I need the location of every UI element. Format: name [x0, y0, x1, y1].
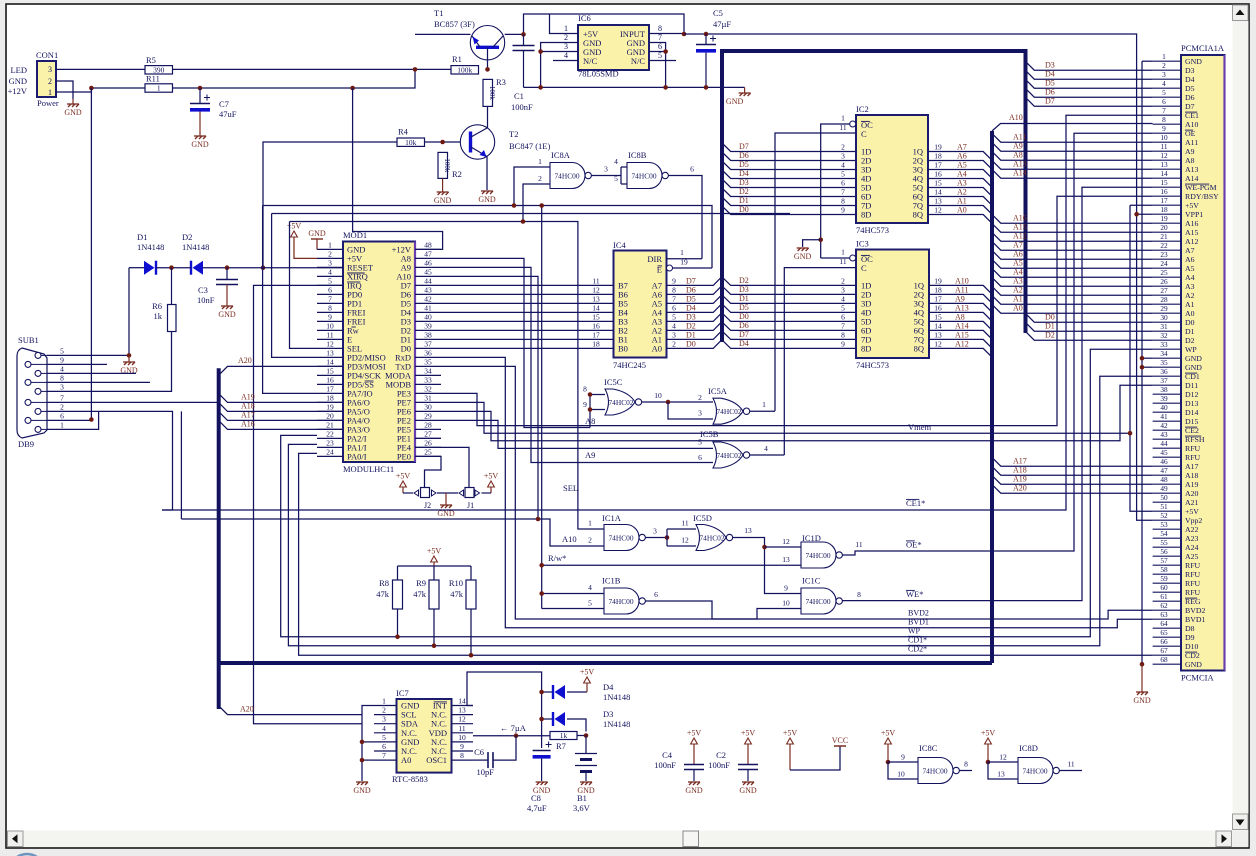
svg-text:11: 11: [326, 330, 333, 339]
svg-text:A4: A4: [1013, 268, 1023, 277]
svg-text:A20: A20: [1013, 484, 1027, 493]
svg-text:C3: C3: [198, 285, 208, 295]
pin MOD1 6 PD0: [317, 293, 343, 295]
pin MOD1 5 IRQ: [317, 284, 343, 286]
svg-text:A0: A0: [1185, 309, 1195, 318]
svg-text:2: 2: [382, 706, 386, 715]
svg-text:A24: A24: [1185, 543, 1199, 552]
horizontal scrollbar thumb: [683, 831, 699, 847]
svg-text:D6: D6: [739, 321, 749, 330]
svg-text:6: 6: [698, 453, 702, 462]
svg-text:8: 8: [328, 303, 332, 312]
pin MOD1 4 XIRQ: [317, 275, 343, 277]
svg-text:A8: A8: [1185, 156, 1195, 165]
svg-text:74HC02: 74HC02: [716, 407, 741, 416]
svg-text:48: 48: [424, 240, 432, 249]
svg-text:CD1*: CD1*: [908, 636, 927, 645]
svg-text:6: 6: [60, 411, 64, 420]
svg-text:26: 26: [1160, 277, 1168, 286]
svg-text:9: 9: [328, 312, 332, 321]
svg-text:37: 37: [1160, 376, 1168, 385]
svg-text:4: 4: [1162, 79, 1166, 88]
svg-text:D5: D5: [739, 303, 749, 312]
svg-text:17: 17: [934, 294, 942, 303]
svg-text:12: 12: [592, 285, 600, 294]
pin PCMCIA 66 D10: [1153, 645, 1181, 647]
svg-text:A2: A2: [1185, 291, 1195, 300]
svg-text:3,6V: 3,6V: [573, 803, 591, 813]
pin IC4 E: [667, 265, 673, 271]
svg-text:36: 36: [1160, 367, 1168, 376]
svg-text:1: 1: [382, 697, 386, 706]
wire IC7 VDD line: [473, 735, 550, 737]
svg-text:PA0/I: PA0/I: [347, 452, 367, 462]
svg-text:12: 12: [934, 206, 942, 215]
pin PCMCIA 56 A25: [1153, 555, 1181, 557]
wire T2 emitter to GND: [486, 157, 488, 191]
svg-text:63: 63: [1160, 610, 1168, 619]
pin PCMCIA 19 A16: [1153, 222, 1181, 224]
pin MOD1 9 FREI: [317, 320, 343, 322]
svg-text:D5: D5: [686, 294, 696, 303]
svg-text:24: 24: [326, 447, 334, 456]
pin PCMCIA 51 +5V: [1153, 510, 1181, 512]
pin PCMCIA 43 RFSH: [1153, 438, 1181, 440]
svg-text:A0: A0: [957, 206, 967, 215]
pin MOD1 7 PD1: [317, 302, 343, 304]
svg-text:74HC00: 74HC00: [805, 551, 830, 560]
svg-text:IC3: IC3: [856, 239, 869, 249]
bottom strip logo arc: [9, 854, 45, 856]
svg-text:MODULHC11: MODULHC11: [343, 464, 394, 474]
svg-text:54: 54: [1160, 529, 1168, 538]
svg-text:13: 13: [458, 706, 466, 715]
svg-text:C: C: [861, 129, 867, 139]
svg-text:6: 6: [382, 742, 386, 751]
svg-text:R1: R1: [452, 54, 462, 64]
pin PCMCIA 3 D4: [1153, 78, 1181, 80]
svg-text:T1: T1: [434, 8, 443, 18]
wire TxD line BVD1: [441, 366, 1153, 619]
svg-text:38: 38: [424, 330, 432, 339]
svg-text:16: 16: [592, 321, 600, 330]
wire RESET line: [129, 267, 144, 269]
svg-text:D15: D15: [1185, 417, 1199, 426]
svg-text:11: 11: [855, 540, 862, 549]
svg-text:IC7: IC7: [396, 688, 409, 698]
svg-text:5: 5: [841, 303, 845, 312]
svg-text:7: 7: [658, 33, 662, 42]
wire +12V line to VPP: [684, 34, 1153, 520]
pin MOD1 33 MODB: [415, 383, 441, 385]
wire IC4 outputs to bus: [667, 277, 723, 286]
svg-text:D6: D6: [739, 151, 749, 160]
pin MOD1 43 D6: [415, 293, 441, 295]
wire PE6 line: [441, 385, 1153, 441]
svg-text:44: 44: [424, 276, 432, 285]
pin PCMCIA 59 RFU: [1153, 582, 1181, 584]
pin PCMCIA 21 A12: [1153, 240, 1181, 242]
svg-text:55: 55: [1160, 538, 1168, 547]
svg-text:49: 49: [1160, 484, 1168, 493]
svg-text:3: 3: [653, 527, 657, 536]
battery B1: [585, 736, 587, 754]
pin PCMCIA 14 A14: [1153, 177, 1181, 179]
svg-text:A17: A17: [1185, 462, 1199, 471]
svg-text:4,7uF: 4,7uF: [527, 803, 547, 813]
svg-text:A10: A10: [1009, 113, 1023, 122]
svg-text:RFU: RFU: [1185, 588, 1201, 597]
wire OE* line: [842, 133, 1152, 555]
svg-text:GND: GND: [794, 252, 812, 261]
pin PCMCIA 22 A7: [1153, 249, 1181, 251]
svg-text:GND: GND: [1185, 660, 1202, 669]
svg-text:D6: D6: [686, 285, 696, 294]
pin PCMCIA 46 A17: [1153, 465, 1181, 467]
svg-text:A5: A5: [1185, 264, 1195, 273]
diode D3 1N4148: [542, 718, 553, 720]
svg-text:D4: D4: [1185, 75, 1195, 84]
svg-text:T2: T2: [509, 129, 518, 139]
svg-text:IC1A: IC1A: [602, 513, 622, 523]
svg-text:A9: A9: [585, 450, 595, 460]
junction OC gnd: [818, 238, 823, 243]
pin IC7 11 VDD: [452, 732, 474, 734]
svg-text:16: 16: [934, 303, 942, 312]
pin MOD1 12 SEL: [317, 347, 343, 349]
wire Rw net line to PA7: [263, 206, 712, 269]
svg-text:7: 7: [382, 751, 386, 760]
svg-text:32: 32: [424, 384, 432, 393]
pin MOD1 17 PA7/IO: [317, 392, 343, 394]
svg-text:7: 7: [1162, 106, 1166, 115]
svg-text:100nF: 100nF: [708, 760, 730, 770]
resistor R7: [550, 732, 577, 740]
svg-text:51: 51: [1160, 502, 1168, 511]
svg-text:1: 1: [60, 420, 64, 429]
pin PCMCIA 5 D6: [1153, 96, 1181, 98]
svg-text:D2: D2: [739, 276, 749, 285]
svg-text:R4: R4: [398, 127, 409, 137]
svg-text:A21: A21: [1185, 498, 1199, 507]
svg-text:29: 29: [424, 411, 432, 420]
svg-text:40: 40: [1160, 403, 1168, 412]
svg-text:1: 1: [1162, 52, 1166, 61]
pin MOD1 39 D2: [415, 329, 441, 331]
capacitor C1: [523, 34, 525, 45]
svg-text:18: 18: [326, 393, 334, 402]
pin PCMCIA 4 D5: [1153, 87, 1181, 89]
svg-text:D1: D1: [686, 330, 696, 339]
wire IC3 outputs to bus: [929, 285, 992, 294]
svg-text:C8: C8: [531, 793, 541, 803]
bus data vertical right: [1024, 49, 1028, 333]
svg-text:39: 39: [424, 321, 432, 330]
junction +12V branch: [350, 86, 355, 91]
svg-text:A5: A5: [957, 161, 967, 170]
pin MOD1 37 D0: [415, 347, 441, 349]
pin PCMCIA 28 A1: [1153, 303, 1181, 305]
svg-text:8: 8: [857, 590, 861, 599]
svg-text:A11: A11: [955, 285, 968, 294]
wire A8 net to IC5C: [441, 258, 590, 427]
pin PCMCIA 67 CD2: [1153, 654, 1181, 656]
svg-text:+5V: +5V: [741, 729, 756, 738]
pin MOD1 2 +5V: [317, 257, 343, 259]
wire bus C to PCMCIA D0-D2: [1026, 313, 1153, 322]
svg-text:RTC-8583: RTC-8583: [392, 774, 428, 784]
svg-text:D6: D6: [1185, 93, 1195, 102]
junction C5: [704, 32, 709, 37]
svg-text:+5V: +5V: [484, 472, 499, 481]
wire GND rail under IC6: [524, 86, 745, 88]
svg-text:RFU: RFU: [1185, 570, 1201, 579]
svg-text:7: 7: [60, 393, 64, 402]
wire bus A10 to PCMCIA pin8: [992, 124, 1153, 132]
svg-text:D1: D1: [137, 232, 147, 242]
svg-text:D1: D1: [739, 196, 749, 205]
svg-text:D0: D0: [686, 339, 696, 348]
pin MOD1 27 PE1: [415, 437, 441, 439]
svg-text:+5V: +5V: [1185, 507, 1199, 516]
svg-text:3: 3: [1162, 70, 1166, 79]
svg-text:BVD1: BVD1: [908, 618, 929, 627]
svg-text:D7: D7: [1045, 97, 1055, 106]
svg-text:3: 3: [328, 258, 332, 267]
resistor R8: [393, 580, 403, 609]
svg-text:32: 32: [1160, 331, 1168, 340]
svg-text:A9: A9: [1185, 147, 1195, 156]
svg-text:D5: D5: [1185, 84, 1195, 93]
pin MOD1 44 D7: [415, 284, 441, 286]
wire IC6 pin8 INPUT: [649, 33, 684, 35]
svg-text:66: 66: [1160, 637, 1168, 646]
svg-text:A2: A2: [1013, 286, 1023, 295]
svg-text:22: 22: [326, 429, 334, 438]
capacitor C3: [226, 268, 228, 279]
pin PCMCIA 34 GND: [1153, 357, 1181, 359]
wire A20 bottom to IC7 SCL: [219, 706, 362, 715]
wire SUB1 pin1: [93, 411, 99, 429]
svg-text:D4: D4: [603, 682, 614, 692]
pin MOD1 36 RxD: [415, 356, 441, 358]
svg-text:9: 9: [901, 753, 905, 762]
svg-text:61: 61: [1160, 592, 1168, 601]
svg-text:64: 64: [1160, 619, 1168, 628]
svg-text:18: 18: [934, 285, 942, 294]
svg-text:D3: D3: [1045, 61, 1055, 70]
pin PCMCIA 24 A5: [1153, 267, 1181, 269]
svg-text:A8: A8: [1013, 151, 1023, 160]
svg-text:47µF: 47µF: [713, 19, 731, 29]
pin PCMCIA 57 RFU: [1153, 564, 1181, 566]
pin PCMCIA 20 A15: [1153, 231, 1181, 233]
svg-text:31: 31: [424, 393, 432, 402]
junction C3: [225, 265, 230, 270]
svg-text:21: 21: [1160, 232, 1168, 241]
pin PCMCIA 48 A19: [1153, 483, 1181, 485]
svg-text:14: 14: [326, 357, 334, 366]
svg-text:R7: R7: [556, 741, 566, 751]
svg-text:A1: A1: [1013, 295, 1023, 304]
svg-text:RFSH: RFSH: [1185, 435, 1205, 444]
wire PCMCIA gnd chain: [1142, 60, 1153, 62]
svg-text:100nF: 100nF: [511, 102, 533, 112]
ground B1: [580, 782, 592, 785]
wire IC7 gnd pins: [362, 706, 374, 782]
junction SUB1 gnd: [127, 353, 132, 358]
svg-text:74HC00: 74HC00: [554, 171, 579, 180]
svg-text:45: 45: [1160, 448, 1168, 457]
svg-text:A8: A8: [955, 312, 965, 321]
svg-text:8: 8: [964, 760, 968, 769]
bus data vertical left: [720, 51, 724, 342]
svg-text:1: 1: [157, 84, 161, 93]
pin PCMCIA 32 D2: [1153, 339, 1181, 341]
svg-text:GND: GND: [9, 76, 27, 86]
svg-text:46: 46: [1160, 457, 1168, 466]
wire +12V to MOD1 pin48: [353, 88, 443, 249]
svg-text:26: 26: [424, 438, 432, 447]
svg-text:46: 46: [424, 258, 432, 267]
svg-text:A15: A15: [1013, 223, 1027, 232]
pin PCMCIA 49 A20: [1153, 492, 1181, 494]
svg-text:6: 6: [658, 42, 662, 51]
svg-text:IC5C: IC5C: [604, 377, 623, 387]
svg-text:+5V: +5V: [981, 729, 996, 738]
svg-text:+5V: +5V: [396, 472, 411, 481]
svg-text:A3: A3: [1013, 277, 1023, 286]
svg-text:2: 2: [48, 77, 52, 86]
svg-text:GND: GND: [1133, 696, 1151, 705]
wire D4 to +5V: [567, 691, 587, 693]
svg-text:+5V: +5V: [427, 547, 442, 556]
svg-text:13: 13: [1160, 160, 1168, 169]
pin PCMCIA 58 RFU: [1153, 573, 1181, 575]
svg-text:14: 14: [934, 321, 942, 330]
svg-text:6: 6: [654, 590, 658, 599]
svg-text:68: 68: [1160, 655, 1168, 664]
svg-text:53: 53: [1160, 520, 1168, 529]
svg-text:A7: A7: [1013, 241, 1023, 250]
wire SUB1 pin8: [93, 381, 150, 383]
svg-text:8Q: 8Q: [913, 210, 923, 220]
pin PCMCIA 16 RDY/BSY: [1153, 195, 1181, 197]
pin MOD1 8 FREI: [317, 311, 343, 313]
svg-text:A3: A3: [957, 179, 967, 188]
svg-text:5: 5: [1162, 88, 1166, 97]
wire R4 left to RESET line: [263, 142, 397, 268]
wire WE* line: [842, 187, 1152, 600]
svg-text:13: 13: [934, 330, 942, 339]
svg-text:17: 17: [1160, 196, 1168, 205]
svg-text:VCC: VCC: [832, 736, 848, 745]
svg-text:R/w*: R/w*: [548, 553, 566, 563]
wire R/w to IC1B: [541, 565, 543, 608]
wire IC7 INT to diodes: [467, 672, 542, 719]
pin PCMCIA 13 A13: [1153, 168, 1181, 170]
pin PCMCIA 62 BVD2: [1153, 609, 1181, 611]
wire D1 anode to gnd column: [128, 268, 130, 356]
pin PCMCIA 2 D3: [1153, 69, 1181, 71]
svg-text:IC2: IC2: [856, 104, 869, 114]
svg-text:47k: 47k: [450, 589, 464, 599]
svg-text:A17: A17: [1013, 457, 1027, 466]
pin SUB1 3: [35, 388, 41, 394]
pin PCMCIA 55 A24: [1153, 546, 1181, 548]
svg-text:SUB1: SUB1: [18, 335, 39, 345]
svg-text:16: 16: [934, 170, 942, 179]
svg-text:A20: A20: [1185, 489, 1199, 498]
pin MOD1 28 PE5: [415, 428, 441, 430]
wire +12V down to SUB1 pin6: [90, 88, 92, 420]
svg-text:10: 10: [782, 599, 790, 608]
svg-text:5: 5: [60, 346, 64, 355]
svg-text:D3: D3: [686, 312, 696, 321]
junction R1 T1 R3: [485, 67, 490, 72]
wire PE2 line to IC5B pin5: [441, 420, 713, 448]
svg-text:D10: D10: [1185, 642, 1199, 651]
pin PCMCIA 68 GND: [1153, 663, 1181, 665]
svg-text:A10: A10: [562, 534, 577, 544]
svg-text:BVD2: BVD2: [1185, 606, 1205, 615]
pin IC7 3 SDA: [374, 723, 397, 725]
svg-text:11: 11: [458, 724, 465, 733]
svg-text:59: 59: [1160, 574, 1168, 583]
wire CON1 pin3 LED to R5: [56, 68, 145, 70]
scrollbar corner: [1233, 831, 1249, 847]
wire IC6 pin4: [553, 60, 578, 62]
svg-text:2: 2: [698, 393, 702, 402]
svg-text:D0: D0: [739, 312, 749, 321]
wire bus exits A17-A20: [992, 457, 1153, 466]
vertical scrollbar track: [1233, 5, 1249, 847]
pin PCMCIA 1 GND: [1153, 60, 1181, 62]
pin IC7 5 GND: [374, 741, 397, 743]
svg-text:9: 9: [583, 400, 587, 409]
wire R5 to node T1base: [173, 68, 452, 70]
svg-text:18: 18: [592, 339, 600, 348]
wire R9 to CD1 line: [433, 609, 435, 646]
svg-text:44: 44: [1160, 439, 1168, 448]
svg-text:BC857 (3F): BC857 (3F): [434, 19, 475, 29]
wire Vmem riser to +5V pins: [1130, 204, 1153, 206]
svg-text:BVD1: BVD1: [1185, 615, 1205, 624]
pin IC7 2 SCL: [374, 714, 397, 716]
svg-text:4: 4: [841, 294, 845, 303]
ground R2: [442, 178, 444, 192]
svg-text:PCMCIA1A: PCMCIA1A: [1181, 43, 1225, 53]
wire SUB1 pin6: [91, 419, 93, 421]
svg-text:R3: R3: [496, 77, 506, 87]
svg-text:58: 58: [1160, 565, 1168, 574]
svg-text:A3: A3: [1185, 282, 1195, 291]
svg-text:74HC573: 74HC573: [856, 225, 889, 235]
svg-text:D2: D2: [739, 187, 749, 196]
svg-text:A6: A6: [1185, 255, 1195, 264]
svg-text:1N4148: 1N4148: [137, 242, 164, 252]
pin MOD1 38 D1: [415, 338, 441, 340]
svg-text:6: 6: [1162, 97, 1166, 106]
svg-text:A9: A9: [1013, 142, 1023, 151]
svg-text:15: 15: [1160, 178, 1168, 187]
svg-text:74HC02: 74HC02: [608, 398, 633, 407]
pin PCMCIA 7 CE1: [1153, 114, 1181, 116]
svg-text:4: 4: [841, 161, 845, 170]
svg-text:6: 6: [690, 165, 694, 174]
svg-text:D2: D2: [182, 232, 192, 242]
svg-text:A0: A0: [401, 755, 411, 765]
